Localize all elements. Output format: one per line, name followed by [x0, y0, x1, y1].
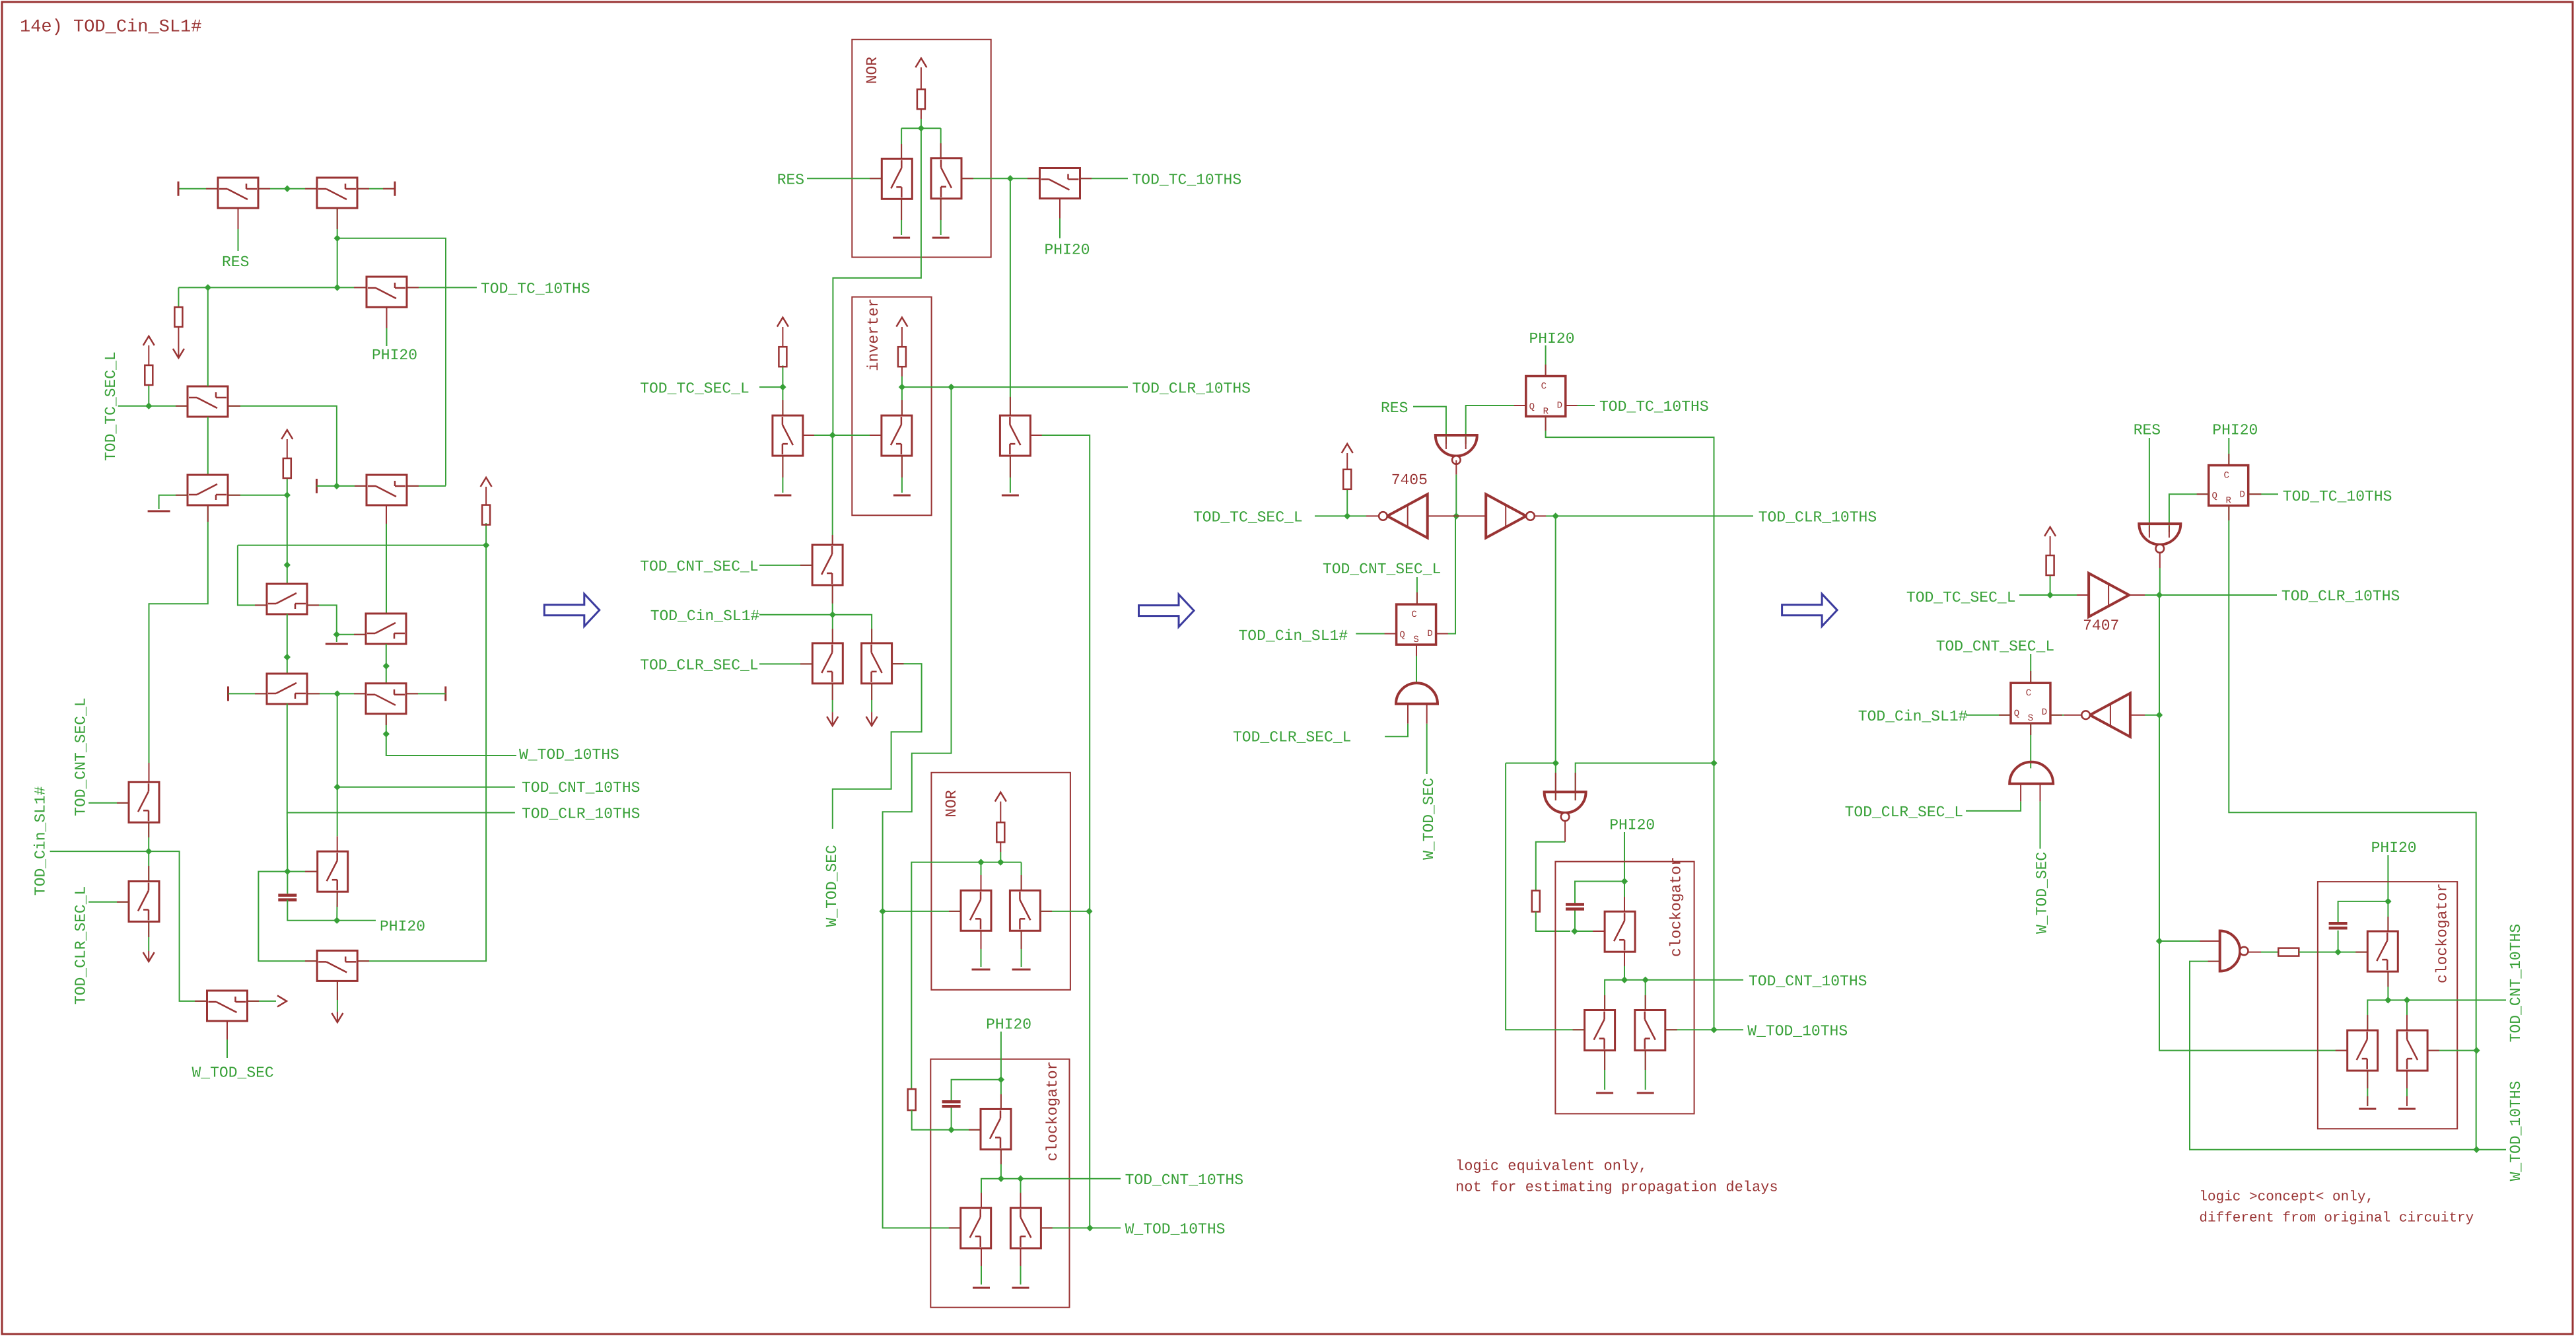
- wire TOD_Cin_SL1# to W_TOD_SEC transistor: [50, 851, 207, 1001]
- Qu ground: [981, 1248, 982, 1285]
- svg-text:TOD_CLR_SEC_L: TOD_CLR_SEC_L: [640, 657, 758, 674]
- AND2 gate up: [1396, 683, 1438, 704]
- svg-text:14e) TOD_Cin_SL1#: 14e) TOD_Cin_SL1#: [20, 18, 201, 38]
- svg-text:Q: Q: [2211, 491, 2217, 502]
- junction TOD_CLR node: [2156, 592, 2163, 598]
- svg-text:TOD_TC_SEC_L: TOD_TC_SEC_L: [640, 380, 749, 397]
- svg-text:TOD_TC_10THS: TOD_TC_10THS: [2283, 488, 2392, 505]
- Q7 gate wire: [287, 871, 317, 872]
- wire NAND3 right input from W_TOD: [1576, 763, 1714, 801]
- junction x434 y995: [284, 654, 291, 660]
- NOR block 2 box: [931, 773, 1070, 990]
- transistor Q3 PHI20 pass: [366, 277, 407, 307]
- junction TOD_CLR out: [1552, 512, 1559, 519]
- capacitor C4: [2338, 931, 2339, 952]
- inverter I3 left with bubble: [2090, 693, 2130, 737]
- wire TOD_Cin node to V8: [832, 615, 833, 643]
- svg-text:PHI20: PHI20: [2371, 839, 2417, 857]
- wire TOD_Cin label to node: [759, 614, 833, 616]
- wire W_TOD net vertical: [1714, 763, 1715, 1030]
- FF1.Q wire to NAND1 in2: [1466, 405, 1526, 444]
- NAND3 output boot wire: [1564, 821, 1566, 842]
- junction QT gate node: [948, 1127, 954, 1133]
- wire TOD_TC_SEC_L to T3: [118, 405, 188, 407]
- wire Qphi node down to V6: [1010, 178, 1011, 415]
- svg-text:R: R: [2225, 496, 2231, 507]
- svg-text:NOR: NOR: [864, 57, 881, 85]
- transistor QT4: [2367, 931, 2398, 971]
- junction 7405 node: [1453, 512, 1459, 519]
- transistor QR4: [2397, 1030, 2427, 1071]
- QL4 ground: [2367, 1071, 2368, 1106]
- NAND3 gate: [1545, 792, 1586, 813]
- transistor Q7v: [318, 851, 348, 892]
- junction PHI20 node: [333, 917, 340, 924]
- bootstrap resistor H: [2278, 948, 2299, 956]
- junction inverter output: [899, 384, 905, 390]
- V1 ground: [901, 198, 902, 235]
- svg-text:logic >concept< only,: logic >concept< only,: [2199, 1190, 2374, 1205]
- wire to Qphi: [1010, 178, 1040, 179]
- clockogator3 box: [1555, 862, 1694, 1114]
- transistor T3: [188, 386, 228, 417]
- Qv2 bottom wire with down arrow: [148, 922, 149, 951]
- svg-text:TOD_CNT_10THS: TOD_CNT_10THS: [2507, 924, 2524, 1042]
- transistor QT: [981, 1109, 1011, 1149]
- FF2.S wire to AND2: [1416, 645, 1417, 684]
- transistor V2: [931, 158, 961, 199]
- inverter I3 output to FF5.D: [2064, 715, 2082, 716]
- svg-text:TOD_TC_SEC_L: TOD_TC_SEC_L: [102, 351, 120, 461]
- svg-text:PHI20: PHI20: [380, 918, 425, 935]
- terminal QB2 right: [444, 686, 446, 701]
- FF1.D wire: [1565, 405, 1595, 406]
- junction Q2.gate node: [334, 235, 341, 242]
- svg-text:S: S: [1413, 635, 1418, 645]
- svg-text:Q: Q: [1529, 402, 1535, 413]
- NOR1 resistor: [917, 89, 925, 109]
- wire TOD_CLR to label: [1556, 515, 1753, 516]
- V8 down arrow: [832, 684, 833, 712]
- svg-text:TOD_CNT_10THS: TOD_CNT_10THS: [1125, 1172, 1243, 1189]
- flipflop FF2: [1397, 604, 1436, 645]
- wire to Qu top: [981, 1179, 1001, 1208]
- Qphi right wire to label: [1080, 178, 1129, 179]
- Qv ground: [1020, 1248, 1022, 1285]
- ground T4: [148, 511, 170, 512]
- junction NOR1 output node: [918, 125, 924, 131]
- Va gate wire: [883, 911, 961, 912]
- wire NOR1-out node to V4 drain: [832, 435, 833, 545]
- junction V3 pullup: [779, 384, 786, 390]
- blue arrow panel2 to panel3: [1139, 594, 1195, 627]
- junction y1111: [383, 730, 390, 737]
- junction W_TOD_10THS p3: [1710, 1026, 1717, 1033]
- svg-text:R: R: [1543, 407, 1549, 417]
- Qv1 bottom wire: [148, 823, 149, 851]
- wire TOD_CLR vertical: [2159, 595, 2348, 1051]
- svg-text:TOD_TC_SEC_L: TOD_TC_SEC_L: [1193, 509, 1303, 526]
- QR top wire: [1645, 980, 1646, 1010]
- I2 input wire: [1456, 515, 1486, 516]
- svg-text:clockogator: clockogator: [1668, 857, 1685, 957]
- QR ground: [1645, 1051, 1646, 1090]
- NAND5 output wire: [2159, 553, 2161, 568]
- NOR1 VCC arrow: [915, 58, 926, 67]
- wire to QL top: [1605, 980, 1624, 1010]
- wire gate node up to TOD_CLR wire: [287, 813, 289, 872]
- inverter I1 left: [1387, 494, 1428, 538]
- AND2 in1 wire TOD_CLR_SEC_L: [1407, 704, 1409, 724]
- T4 left wire to ground: [159, 495, 188, 509]
- QT source wire: [1000, 1149, 1002, 1179]
- FF1 clock wire: [1545, 345, 1547, 376]
- buffer out wire: [2129, 594, 2145, 596]
- svg-text:TOD_TC_10THS: TOD_TC_10THS: [1132, 171, 1242, 188]
- pullup R3 at x435: [287, 477, 288, 495]
- svg-text:TOD_CLR_10THS: TOD_CLR_10THS: [2281, 588, 2400, 605]
- NOR2 drain bar: [981, 862, 1022, 863]
- V6 ground: [1010, 456, 1011, 493]
- wire to QB.left: [337, 634, 366, 635]
- FF2.D wire up to 7405 node: [1436, 516, 1455, 633]
- AND5 gate up: [2009, 762, 2053, 784]
- transistor Q1: [218, 178, 258, 208]
- transistor Qphi: [1040, 168, 1080, 199]
- terminal T1 left: [178, 182, 180, 196]
- svg-text:TOD_CNT_SEC_L: TOD_CNT_SEC_L: [73, 697, 90, 816]
- transistor T6: [267, 584, 307, 614]
- V6 gate wire to W_TOD net: [1030, 435, 1090, 911]
- buffer 7407: [2089, 573, 2129, 617]
- junction TOD_Cin node: [145, 848, 152, 855]
- svg-text:W_TOD_SEC: W_TOD_SEC: [192, 1065, 274, 1082]
- junction QR4 top: [2404, 997, 2410, 1003]
- svg-text:PHI20: PHI20: [372, 347, 417, 364]
- V4 gate wire: [759, 565, 812, 566]
- transistor T5 PHI pass 2: [366, 475, 407, 505]
- AND5 in1 wire TOD_CLR_SEC_L: [2020, 784, 2021, 802]
- transistor V3: [773, 415, 803, 456]
- capacitor C2: [952, 1080, 1001, 1100]
- junction TOD_CLR at NAND3: [1552, 759, 1559, 766]
- Q3 right wire to TOD_TC_10THS: [407, 287, 477, 288]
- svg-text:TOD_TC_10THS: TOD_TC_10THS: [1599, 398, 1709, 415]
- transistor QT3: [1605, 911, 1635, 952]
- junction x585 y1008: [383, 662, 390, 669]
- transistor Vb: [1010, 890, 1040, 931]
- svg-text:W_TOD_SEC: W_TOD_SEC: [823, 845, 841, 927]
- svg-text:W_TOD_SEC: W_TOD_SEC: [1420, 778, 1438, 860]
- svg-text:clockogator: clockogator: [2434, 883, 2451, 983]
- wire gate node to Q8 source: [258, 872, 317, 962]
- svg-text:W_TOD_10THS: W_TOD_10THS: [519, 746, 619, 763]
- svg-text:TOD_Cin_SL1#: TOD_Cin_SL1#: [1858, 708, 1968, 725]
- junction PHI20 node p4: [2385, 898, 2391, 905]
- QA right wire to QB2: [308, 693, 366, 694]
- terminal T2 right: [394, 182, 396, 196]
- transistor V1: [882, 158, 912, 199]
- wire TOD_CNT out: [1624, 979, 1743, 981]
- svg-text:PHI20: PHI20: [1609, 817, 1655, 834]
- NOR block 1 box: [852, 40, 991, 258]
- wire TOD_CNT_10THS: [337, 787, 515, 788]
- V3 gate wire: [802, 435, 833, 436]
- svg-text:D: D: [2042, 707, 2047, 718]
- junction QT4 gate node: [2334, 948, 2341, 955]
- Va ground: [981, 931, 982, 967]
- transistor Q8: [317, 950, 357, 981]
- svg-text:D: D: [2239, 490, 2245, 501]
- svg-text:TOD_Cin_SL1#: TOD_Cin_SL1#: [32, 786, 50, 896]
- svg-text:RES: RES: [777, 171, 804, 188]
- QL ground: [1604, 1051, 1605, 1090]
- Q2 gate wire: [337, 208, 338, 287]
- V5 ground: [901, 456, 903, 493]
- svg-text:7407: 7407: [2083, 617, 2119, 635]
- junction TOD_CNT tap: [1017, 1176, 1024, 1182]
- junction T5.left: [333, 483, 340, 489]
- svg-text:TOD_CNT_SEC_L: TOD_CNT_SEC_L: [1323, 561, 1441, 578]
- svg-text:PHI20: PHI20: [1045, 242, 1090, 259]
- inverter resistor: [898, 347, 906, 367]
- V2 ground: [940, 197, 942, 235]
- ground stem: [336, 635, 337, 642]
- pulldown resistor R1 with down arrow: [178, 287, 179, 307]
- svg-text:C: C: [1411, 610, 1416, 620]
- wire W_TOD_10THS label: [2476, 1149, 2506, 1150]
- transistor V4: [812, 545, 843, 585]
- FF2 clock wire: [1416, 577, 1418, 604]
- wire inverter out right TOD_CLR_10THS: [902, 386, 1128, 388]
- V4 bottom wire: [832, 585, 833, 615]
- gate chain x585 QB-QB2: [386, 644, 387, 684]
- svg-text:NOR: NOR: [943, 790, 960, 818]
- QR4 gate wire: [2427, 1050, 2476, 1051]
- svg-text:C: C: [2223, 471, 2229, 481]
- svg-text:TOD_CLR_10THS: TOD_CLR_10THS: [1132, 380, 1251, 397]
- transistor Qv2: [129, 882, 159, 922]
- NAND3 in1 wire: [1555, 763, 1556, 801]
- junction x435 y855: [284, 561, 291, 568]
- V9 gate wire staircase to W_TOD_SEC: [833, 664, 922, 829]
- svg-text:Q: Q: [1399, 630, 1405, 641]
- wire pullup node to V3 top: [782, 387, 783, 415]
- Qv2 gate wire TOD_CLR_SEC_L: [88, 901, 129, 903]
- QT3 source wire: [1624, 952, 1625, 980]
- junction NOR1-out distribution: [829, 432, 836, 439]
- NOR2 resistor: [996, 822, 1004, 842]
- junction TOD_Cin node: [829, 612, 836, 618]
- NOR1 output run down-left: [833, 128, 921, 435]
- Qv gate wire: [1041, 1227, 1090, 1228]
- FF4.R wire W_TOD net: [2229, 506, 2476, 1149]
- wire gate-net horizontal y435: [178, 287, 366, 288]
- T5 gate chain x585: [386, 505, 387, 614]
- Q1 gate wire RES: [238, 208, 239, 251]
- capacitor C1: [287, 872, 288, 894]
- wire Q7 source to PHI node: [336, 892, 338, 921]
- transistor V8: [812, 643, 843, 684]
- junction TOD_CNT node: [334, 690, 341, 697]
- svg-text:W_TOD_10THS: W_TOD_10THS: [1125, 1221, 1226, 1238]
- svg-text:TOD_CNT_10THS: TOD_CNT_10THS: [522, 779, 640, 796]
- QT4 gate wire: [2338, 952, 2368, 953]
- PHI20 wire down p4: [2387, 855, 2388, 931]
- svg-text:TOD_TC_SEC_L: TOD_TC_SEC_L: [1906, 589, 2016, 606]
- inverter VCC arrow: [896, 318, 907, 327]
- svg-text:C: C: [2026, 688, 2031, 699]
- RES wire to NAND5: [2149, 438, 2150, 532]
- rail y825: [238, 545, 486, 546]
- junction QT source: [998, 1176, 1004, 1182]
- RES input wire: [807, 178, 882, 179]
- NAND4 gate right: [2220, 931, 2240, 971]
- flipflop FF4: [2209, 466, 2248, 507]
- junction W_TOD_10THS: [1086, 1224, 1093, 1231]
- V2 gate wire right: [961, 178, 1010, 179]
- junction pullup I1: [1344, 512, 1350, 519]
- QT4 source wire: [2387, 971, 2388, 1000]
- NOR2 VCC arrow: [995, 792, 1006, 802]
- QL gate wire from TOD_CLR net: [1506, 763, 1585, 1030]
- wire Q1-Q2 node: [258, 188, 317, 190]
- inverter I2 right: [1486, 494, 1526, 538]
- pullup resistor and VCC: [2050, 575, 2051, 595]
- junction QR4 gate: [2473, 1047, 2480, 1053]
- svg-text:inverter: inverter: [865, 299, 882, 371]
- FF1.R wire to W_TOD net: [1546, 417, 1714, 763]
- RES wire to NAND1 in1: [1413, 407, 1446, 444]
- capacitor C3: [1574, 910, 1576, 931]
- wire TOD_TC_SEC_L to buffer: [2019, 594, 2089, 596]
- junction Qphi left: [1007, 175, 1014, 182]
- junction gate-net x510: [334, 284, 341, 291]
- svg-text:TOD_CLR_10THS: TOD_CLR_10THS: [1758, 509, 1877, 526]
- transistor V5: [882, 415, 912, 456]
- junction pullup tap: [145, 403, 152, 409]
- NAND1 gate: [1436, 435, 1477, 456]
- junction QT3 gate node: [1571, 928, 1578, 934]
- PHI20 wire down: [1624, 832, 1625, 911]
- wire NAND3 input left net: [1506, 763, 1556, 764]
- NOR2 out tap to bootstrap: [911, 863, 981, 1090]
- transistor Q2: [317, 178, 357, 208]
- wire Q2 right to terminal: [357, 188, 395, 190]
- wire W_TOD_10THS from QB2 gate: [386, 713, 516, 756]
- svg-text:C: C: [1541, 382, 1547, 392]
- wire TOD_Cin node to V9: [833, 615, 872, 643]
- V5 gate wire from NOR1 out: [833, 435, 882, 436]
- clockogator4 box: [2318, 882, 2457, 1129]
- svg-text:W_TOD_10THS: W_TOD_10THS: [1747, 1023, 1848, 1040]
- junction T6/QB node: [333, 631, 340, 638]
- I1 output wire to TOD_TC_SEC_L: [1366, 515, 1379, 516]
- svg-text:TOD_Cin_SL1#: TOD_Cin_SL1#: [1239, 627, 1348, 645]
- svg-text:TOD_CNT_SEC_L: TOD_CNT_SEC_L: [1936, 638, 2054, 655]
- junction gate-net x314: [205, 284, 211, 291]
- svg-text:TOD_TC_10THS: TOD_TC_10THS: [481, 281, 590, 298]
- V3 pullup resistor + VCC: [782, 365, 783, 387]
- I1 input wire: [1428, 515, 1457, 516]
- QT3 gate wire: [1575, 931, 1605, 932]
- transistor V9: [862, 643, 892, 684]
- QT gate wire: [952, 1129, 981, 1131]
- Qv2 top wire: [148, 851, 149, 881]
- junction pullup buffer: [2046, 592, 2053, 598]
- wire node to x675 riser: [337, 238, 446, 486]
- wire TOD_CLR net continues to Qu gate: [883, 911, 961, 1228]
- svg-text:PHI20: PHI20: [986, 1016, 1031, 1034]
- transistor QL4: [2348, 1030, 2378, 1071]
- Qphi gate wire PHI20: [1059, 198, 1061, 238]
- transistor V6: [1000, 415, 1030, 456]
- FF4.Q wire to NAND5 in2: [2169, 494, 2209, 532]
- wire to QL4 top: [2367, 1000, 2388, 1030]
- transistor T4: [188, 475, 228, 505]
- transistor Qv1: [129, 782, 159, 822]
- QR gate wire to W_TOD: [1665, 1029, 1714, 1030]
- svg-text:TOD_Cin_SL1#: TOD_Cin_SL1#: [650, 608, 760, 625]
- svg-text:not for estimating propagation: not for estimating propagation delays: [1455, 1180, 1778, 1196]
- junction W_TOD net at Vb: [1086, 908, 1092, 915]
- wire rail to Q8 drain long vertical: [358, 546, 487, 962]
- PHI20 wire into clockogator: [1000, 1032, 1002, 1109]
- svg-text:RES: RES: [2134, 422, 2161, 439]
- wire W_TOD_10THS label: [1090, 1227, 1121, 1228]
- svg-text:logic equivalent only,: logic equivalent only,: [1455, 1158, 1647, 1175]
- transistor QB2: [366, 684, 406, 714]
- AND5 in2 wire W_TOD_SEC: [2040, 784, 2041, 802]
- pullup R4 x736: [485, 523, 487, 546]
- wire gate chain x314 through T3 T4: [207, 287, 209, 386]
- junction Q1.d/Q2.s: [284, 186, 291, 192]
- svg-text:S: S: [2028, 713, 2033, 724]
- wire to Qv top: [1020, 1179, 1022, 1208]
- junction rail pullup: [483, 542, 489, 548]
- wire TOD_CNT_10THS out: [1021, 1178, 1121, 1180]
- wire TOD_CLR down: [1555, 516, 1556, 763]
- wire inverter node to V5: [901, 387, 903, 415]
- I3 input wire: [2130, 715, 2145, 716]
- svg-text:W_TOD_10THS: W_TOD_10THS: [2507, 1081, 2524, 1181]
- wire TOD_CLR_10THS from gate chain: [287, 703, 515, 812]
- junction QR4 gate net: [2473, 1146, 2480, 1153]
- junction Va gate: [879, 908, 886, 915]
- wire TOD_CNT net vertical x510: [337, 693, 338, 836]
- FF4.D wire: [2249, 493, 2278, 495]
- transistor Qu: [961, 1208, 991, 1248]
- transistor Qv: [1010, 1208, 1041, 1248]
- junction inverter3 in: [2156, 712, 2163, 719]
- junction QT3 source: [1621, 977, 1628, 983]
- junction PHI20 node p3: [1621, 878, 1628, 884]
- V3 ground: [782, 456, 783, 493]
- svg-text:clockogator: clockogator: [1044, 1061, 1061, 1162]
- junction TOD_CNT y1191: [334, 784, 341, 791]
- QW right wire with arrow out: [248, 1001, 277, 1002]
- terminal QA left: [227, 686, 229, 701]
- FF5 clock wire: [2030, 654, 2031, 683]
- junction NOR2 out: [997, 859, 1004, 865]
- junction TOD_CLR gate-net top: [284, 492, 291, 499]
- wire PHI node to label: [337, 920, 376, 921]
- svg-text:TOD_CNT_SEC_L: TOD_CNT_SEC_L: [640, 558, 758, 575]
- Vb ground: [1021, 931, 1022, 967]
- junction W_TOD at x2595: [1710, 759, 1717, 766]
- wire TOD_CNT_SEC_L to Qv1 gate: [88, 802, 129, 804]
- svg-text:PHI20: PHI20: [2212, 422, 2258, 439]
